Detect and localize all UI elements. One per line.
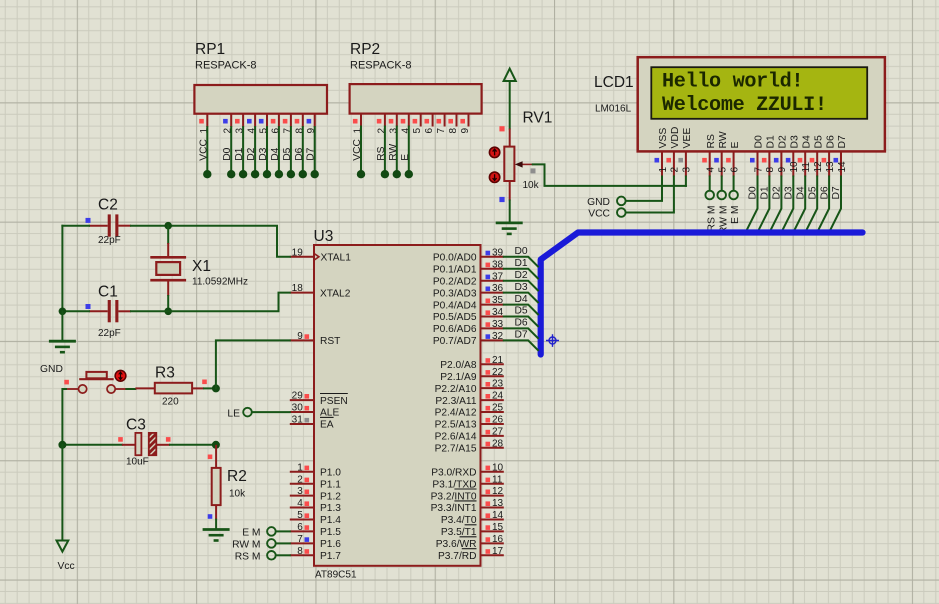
svg-text:D0: D0 bbox=[515, 246, 528, 257]
junction R3/RST bbox=[212, 384, 220, 392]
svg-text:P1.4: P1.4 bbox=[320, 515, 341, 526]
wire E M to U3 bbox=[276, 530, 290, 532]
svg-text:D6: D6 bbox=[819, 186, 830, 199]
wire R2 to ground bbox=[215, 520, 217, 529]
svg-text:R3: R3 bbox=[155, 365, 175, 382]
svg-text:RP2: RP2 bbox=[350, 41, 380, 58]
svg-text:28: 28 bbox=[492, 438, 504, 449]
svg-text:C2: C2 bbox=[98, 197, 118, 214]
svg-text:C3: C3 bbox=[126, 417, 146, 434]
svg-text:8: 8 bbox=[297, 546, 303, 557]
Vcc label bbox=[58, 561, 75, 572]
U3 pin 35 (P0.4/AD4) bbox=[433, 295, 504, 311]
R3 value label 220 bbox=[162, 397, 179, 408]
wire R3 to RST rail bbox=[204, 387, 216, 389]
X1 value label 11.0592MHz bbox=[192, 277, 248, 288]
power terminal Vcc (down arrow) bbox=[57, 541, 69, 552]
svg-text:D1: D1 bbox=[234, 147, 245, 160]
svg-text:10k: 10k bbox=[523, 180, 540, 191]
svg-text:31: 31 bbox=[292, 415, 304, 426]
LCD1 pin 5 (RW) bbox=[714, 131, 729, 176]
svg-text:6: 6 bbox=[729, 167, 740, 173]
U3 pin 14 (P3.4/T0) bbox=[441, 510, 504, 526]
capacitor C2 label bbox=[98, 197, 118, 214]
svg-text:11: 11 bbox=[801, 162, 812, 173]
svg-text:P2.1/A9: P2.1/A9 bbox=[440, 372, 477, 383]
potentiometer RV1 body bbox=[504, 147, 514, 181]
wire LCD D1 to bus bbox=[758, 177, 770, 232]
capacitor C1 bbox=[89, 300, 131, 322]
svg-text:7: 7 bbox=[436, 128, 447, 134]
svg-text:VCC: VCC bbox=[588, 209, 610, 220]
wire LCD VSS to GND terminal bbox=[626, 177, 662, 201]
U3 pin 16 (P3.6/WR) bbox=[436, 534, 504, 550]
wire LCD D7 to bus bbox=[830, 177, 842, 232]
svg-text:D3: D3 bbox=[258, 147, 269, 160]
svg-text:E M: E M bbox=[242, 527, 260, 538]
U3 pin 26 (P2.5/A13) bbox=[435, 415, 504, 431]
svg-text:19: 19 bbox=[292, 247, 304, 258]
svg-text:22pF: 22pF bbox=[98, 328, 121, 339]
LCD1 pin 10 (D3) bbox=[786, 135, 801, 177]
net label D4 (U3 side) bbox=[515, 294, 528, 305]
wire button right to R3 bbox=[115, 388, 135, 390]
U3 pin 38 (P0.1/AD1) bbox=[433, 259, 504, 275]
LCD1 pin 9 (D2) bbox=[774, 135, 789, 177]
wire Vcc rail to C3 bbox=[62, 444, 122, 446]
svg-text:27: 27 bbox=[492, 427, 504, 438]
svg-text:13: 13 bbox=[825, 161, 836, 173]
U3 pin 22 (P2.1/A9) bbox=[440, 367, 504, 383]
svg-text:P0.2/AD2: P0.2/AD2 bbox=[433, 276, 477, 287]
svg-text:5: 5 bbox=[297, 510, 303, 521]
wire LCD D3 to bus bbox=[782, 177, 794, 232]
junction C1/X1 node bbox=[164, 308, 172, 316]
wire Vcc rail down bbox=[61, 445, 63, 541]
wire C2 left to left rail bbox=[62, 225, 89, 227]
resistor pack RP1 body bbox=[194, 85, 327, 114]
microcontroller U3 AT89C51 body bbox=[314, 245, 481, 566]
LCD text line 2 bbox=[662, 94, 827, 117]
X1 reference label bbox=[192, 258, 211, 275]
LCD1 pin 1 (VSS) bbox=[655, 128, 670, 177]
terminal RS M bbox=[235, 551, 276, 562]
LCD1 pin 12 (D5) bbox=[810, 135, 825, 177]
R2 bottom pin square bbox=[208, 514, 213, 519]
U3 pin 9 (RST) bbox=[290, 331, 341, 347]
svg-text:LCD1: LCD1 bbox=[594, 74, 634, 91]
svg-text:RST: RST bbox=[320, 336, 340, 347]
RP2 pin 8 bbox=[448, 114, 459, 134]
U3 pin 1 (P1.0) bbox=[290, 462, 341, 478]
svg-text:P2.5/A13: P2.5/A13 bbox=[435, 420, 477, 431]
svg-text:25: 25 bbox=[492, 403, 504, 414]
svg-text:P2.7/A15: P2.7/A15 bbox=[435, 444, 477, 455]
svg-text:RS: RS bbox=[376, 146, 387, 160]
push button actuator circle bbox=[115, 370, 126, 381]
push button SW bbox=[79, 372, 116, 393]
terminal RW M bbox=[232, 539, 276, 550]
svg-text:10: 10 bbox=[789, 161, 800, 173]
svg-text:9: 9 bbox=[460, 128, 471, 134]
net label D6 (U3 side) bbox=[515, 318, 528, 329]
RV1 decrement button bbox=[489, 172, 499, 182]
terminal RS M bbox=[705, 191, 717, 232]
R2 top pin square bbox=[208, 455, 213, 460]
terminal GND bbox=[587, 197, 625, 208]
svg-text:D4: D4 bbox=[270, 147, 281, 160]
svg-text:VSS: VSS bbox=[658, 128, 669, 149]
capacitor C1 label bbox=[98, 284, 118, 301]
svg-text:35: 35 bbox=[492, 295, 504, 306]
svg-text:21: 21 bbox=[492, 355, 504, 366]
U3 pin 21 (P2.0/A8) bbox=[440, 355, 504, 371]
svg-text:P1.5: P1.5 bbox=[320, 527, 341, 538]
net label D1 (U3 side) bbox=[515, 258, 528, 269]
svg-text:12: 12 bbox=[813, 161, 824, 173]
U3 pin 10 (P3.0/RXD) bbox=[431, 462, 504, 478]
U3 pin 11 (P3.1/TXD) bbox=[432, 474, 503, 490]
wire LCD D0 to bus bbox=[746, 177, 758, 232]
wire LCD VDD to VCC terminal bbox=[626, 177, 674, 213]
svg-text:RS M: RS M bbox=[706, 206, 717, 232]
U3 pin 37 (P0.2/AD2) bbox=[433, 271, 504, 287]
terminal E M bbox=[729, 191, 741, 224]
svg-text:RESPACK-8: RESPACK-8 bbox=[350, 60, 412, 72]
RP2 value label RESPACK-8 bbox=[350, 60, 412, 72]
svg-text:4: 4 bbox=[706, 167, 717, 173]
U3 pin 3 (P1.2) bbox=[290, 486, 341, 502]
wire LCD VEE down bbox=[685, 177, 687, 186]
svg-text:D6: D6 bbox=[294, 147, 305, 160]
svg-text:LM016L: LM016L bbox=[595, 104, 632, 115]
wire RW M to U3 bbox=[276, 542, 290, 544]
wire C1 left junction bbox=[62, 310, 89, 312]
svg-text:D6: D6 bbox=[515, 318, 528, 329]
svg-text:34: 34 bbox=[492, 307, 504, 318]
RV1 top pin stub bbox=[509, 129, 511, 147]
C3 value label 10uF bbox=[126, 457, 149, 468]
terminal LE bbox=[227, 408, 251, 420]
ground below RV1 bbox=[496, 223, 523, 234]
terminal VCC bbox=[588, 208, 625, 219]
svg-text:C1: C1 bbox=[98, 284, 118, 301]
svg-text:22pF: 22pF bbox=[98, 235, 121, 246]
svg-text:24: 24 bbox=[492, 391, 504, 402]
button pin square bbox=[64, 380, 69, 385]
svg-text:D3: D3 bbox=[784, 186, 795, 199]
U3 pin 28 (P2.7/A15) bbox=[435, 438, 504, 454]
net label D3 (U3 side) bbox=[515, 282, 528, 293]
svg-text:2: 2 bbox=[670, 167, 681, 173]
RP1 value label RESPACK-8 bbox=[195, 60, 257, 72]
U3 pin 31 (EA) bbox=[290, 415, 334, 431]
svg-text:23: 23 bbox=[492, 379, 504, 390]
RP2 pin 5 bbox=[412, 114, 423, 134]
terminal E M bbox=[242, 527, 276, 538]
svg-text:1: 1 bbox=[658, 167, 669, 173]
U3 pin 19 (XTAL1) bbox=[290, 247, 351, 263]
svg-text:XTAL2: XTAL2 bbox=[320, 288, 351, 299]
svg-text:U3: U3 bbox=[314, 228, 334, 245]
svg-text:D0: D0 bbox=[222, 147, 233, 160]
svg-text:R2: R2 bbox=[227, 468, 247, 485]
svg-text:RV1: RV1 bbox=[523, 110, 553, 127]
U3 pin 34 (P0.5/AD5) bbox=[433, 307, 504, 323]
wire LCD D4 to bus bbox=[794, 177, 806, 232]
junction left rail C1 bbox=[59, 308, 67, 316]
svg-text:Welcome ZZULI!: Welcome ZZULI! bbox=[662, 94, 827, 117]
svg-text:4: 4 bbox=[297, 498, 303, 509]
RP1 pin 4 (D2) bbox=[246, 114, 259, 179]
svg-text:D2: D2 bbox=[778, 135, 789, 149]
svg-text:D2: D2 bbox=[515, 270, 528, 281]
svg-text:P0.6/AD6: P0.6/AD6 bbox=[433, 324, 477, 335]
svg-text:D5: D5 bbox=[807, 186, 818, 199]
svg-text:D4: D4 bbox=[515, 294, 528, 305]
svg-text:33: 33 bbox=[492, 319, 504, 330]
svg-text:11.0592MHz: 11.0592MHz bbox=[192, 277, 248, 288]
svg-text:1: 1 bbox=[297, 462, 303, 473]
RV1 bottom pin stub bbox=[509, 181, 511, 201]
net label D4 (LCD side) bbox=[795, 186, 806, 199]
svg-text:D4: D4 bbox=[801, 135, 812, 149]
LCD1 pin 6 (E) bbox=[726, 142, 741, 177]
RP2 pin 2 bbox=[376, 114, 389, 179]
svg-text:32: 32 bbox=[492, 331, 504, 342]
U3 pin 7 (P1.6) bbox=[290, 534, 341, 550]
svg-text:P0.5/AD5: P0.5/AD5 bbox=[433, 312, 477, 323]
svg-text:12: 12 bbox=[492, 486, 504, 497]
RP1 pin 6 (D4) bbox=[270, 114, 283, 179]
wire U3 P0.2 to bus (net D2) bbox=[504, 281, 538, 291]
wire U3 P0.6 to bus (net D6) bbox=[504, 328, 538, 338]
RP1 pin 8 (D6) bbox=[294, 114, 307, 179]
svg-text:P0.0/AD0: P0.0/AD0 bbox=[433, 253, 477, 264]
svg-text:P3.7/RD: P3.7/RD bbox=[438, 551, 477, 562]
svg-text:D2: D2 bbox=[772, 186, 783, 199]
svg-text:D2: D2 bbox=[246, 147, 257, 160]
svg-text:10k: 10k bbox=[229, 489, 246, 500]
U3 pin 24 (P2.3/A11) bbox=[435, 391, 503, 407]
svg-text:P1.3: P1.3 bbox=[320, 503, 341, 514]
LCD1 pin 3 (VEE) bbox=[678, 128, 693, 177]
U3 pin 5 (P1.4) bbox=[290, 510, 341, 526]
U3 pin 4 (P1.3) bbox=[290, 498, 341, 514]
RV1 wiper square bbox=[531, 168, 536, 173]
net label D5 (U3 side) bbox=[515, 306, 528, 317]
LCD1 pin 8 (D1) bbox=[762, 135, 777, 177]
C2 pin square bbox=[86, 218, 91, 223]
svg-text:P2.3/A11: P2.3/A11 bbox=[435, 396, 476, 407]
svg-text:13: 13 bbox=[492, 498, 504, 509]
U3 pin 12 (P3.2/INT0) bbox=[431, 486, 504, 502]
wire U3 P0.1 to bus (net D1) bbox=[504, 269, 538, 279]
net label D6 (LCD side) bbox=[819, 186, 830, 199]
LCD1 pin 2 (VDD) bbox=[666, 127, 681, 177]
svg-text:17: 17 bbox=[492, 546, 504, 557]
svg-text:P0.1/AD1: P0.1/AD1 bbox=[433, 264, 477, 275]
svg-text:P0.4/AD4: P0.4/AD4 bbox=[433, 300, 477, 311]
svg-text:29: 29 bbox=[292, 391, 304, 402]
net label D1 (LCD side) bbox=[760, 186, 771, 199]
junction Vcc rail / C3 row bbox=[58, 441, 66, 449]
U3 pin 36 (P0.3/AD3) bbox=[433, 283, 504, 299]
svg-text:7: 7 bbox=[297, 534, 303, 545]
capacitor C2 bbox=[89, 214, 131, 236]
svg-text:9: 9 bbox=[297, 331, 303, 342]
RP1 pin 7 (D5) bbox=[282, 114, 295, 179]
RP1 pin 9 (D7) bbox=[306, 114, 319, 179]
RV1 reference label bbox=[523, 110, 553, 127]
svg-text:RESPACK-8: RESPACK-8 bbox=[195, 60, 257, 72]
wire LCD RW to terminal bbox=[721, 177, 723, 191]
wire RS M to U3 bbox=[276, 554, 290, 556]
svg-text:16: 16 bbox=[492, 534, 504, 545]
U3 pin 13 (P3.3/INT1) bbox=[431, 498, 504, 514]
net label D0 (U3 side) bbox=[515, 246, 528, 257]
terminal RW M bbox=[717, 191, 729, 234]
ground below R2 bbox=[203, 530, 230, 541]
R2 value label 10k bbox=[229, 489, 246, 500]
U3 pin 2 (P1.1) bbox=[290, 474, 341, 490]
net label D0 (LCD side) bbox=[748, 186, 759, 199]
svg-text:VCC: VCC bbox=[198, 138, 209, 160]
svg-text:RS: RS bbox=[706, 134, 717, 149]
C1 value label 22pF bbox=[98, 328, 121, 339]
svg-text:39: 39 bbox=[492, 247, 504, 258]
wire left rail C2 to C1 bbox=[61, 226, 63, 312]
LCD1 pin 4 (RS) bbox=[702, 134, 717, 177]
RV1 top pin square bbox=[499, 126, 504, 131]
RV1 bottom pin square bbox=[499, 197, 504, 202]
power terminal above RV1 bbox=[504, 69, 516, 129]
GND label top-left bbox=[40, 364, 63, 375]
svg-text:D3: D3 bbox=[515, 282, 528, 293]
svg-text:XTAL1: XTAL1 bbox=[321, 253, 352, 264]
svg-text:15: 15 bbox=[492, 522, 504, 533]
wire LCD D6 to bus bbox=[818, 177, 830, 232]
wire U3 P0.5 to bus (net D5) bbox=[504, 317, 538, 327]
LCD1 pin 13 (D6) bbox=[822, 135, 837, 177]
svg-text:E M: E M bbox=[730, 206, 741, 224]
resistor R2 bbox=[212, 445, 221, 520]
svg-text:GND: GND bbox=[40, 364, 63, 375]
U3 type label AT89C51 bbox=[315, 570, 357, 581]
svg-text:VCC: VCC bbox=[352, 138, 363, 160]
wire U3 P0.7 to bus (net D7) bbox=[504, 340, 538, 350]
C3 right pin square bbox=[166, 437, 171, 442]
svg-text:14: 14 bbox=[837, 161, 848, 173]
svg-text:30: 30 bbox=[292, 403, 304, 414]
svg-text:220: 220 bbox=[162, 397, 179, 408]
svg-text:D7: D7 bbox=[306, 147, 317, 160]
C2 value label 22pF bbox=[98, 235, 121, 246]
crystal X1 bbox=[150, 257, 186, 280]
U3 pin 30 (ALE) bbox=[290, 403, 340, 419]
wire C2 right to XTAL1 bbox=[131, 226, 290, 257]
LCD1 pin 7 (D0) bbox=[750, 135, 765, 177]
RV1 increment button bbox=[489, 147, 499, 157]
svg-text:P1.2: P1.2 bbox=[320, 491, 341, 502]
RP2 pin 9 bbox=[460, 114, 471, 134]
svg-text:P2.6/A14: P2.6/A14 bbox=[435, 432, 477, 443]
svg-text:36: 36 bbox=[492, 283, 504, 294]
svg-text:10uF: 10uF bbox=[126, 457, 149, 468]
svg-text:P3.0/RXD: P3.0/RXD bbox=[431, 467, 476, 478]
svg-text:P1.6: P1.6 bbox=[320, 539, 341, 550]
RV1 value label 10k bbox=[523, 180, 540, 191]
U3 pin 18 (XTAL2) bbox=[290, 283, 351, 299]
svg-text:RS M: RS M bbox=[235, 551, 261, 562]
R3 reference label bbox=[155, 365, 175, 382]
svg-text:P1.0: P1.0 bbox=[320, 467, 341, 478]
svg-text:10: 10 bbox=[492, 462, 504, 473]
svg-text:D1: D1 bbox=[766, 135, 777, 149]
svg-text:3: 3 bbox=[682, 167, 693, 173]
wire U3 P0.3 to bus (net D3) bbox=[504, 293, 538, 303]
RP2 pin 1 bbox=[352, 114, 365, 179]
wire RV1 wiper to LCD VEE bbox=[533, 164, 686, 186]
svg-text:P2.2/A10: P2.2/A10 bbox=[435, 384, 477, 395]
RP1 pin 5 (D3) bbox=[258, 114, 271, 179]
svg-text:P2.0/A8: P2.0/A8 bbox=[440, 360, 477, 371]
RP1 pin 3 (D1) bbox=[234, 114, 247, 179]
net label D2 (LCD side) bbox=[772, 186, 783, 199]
svg-text:P2.4/A12: P2.4/A12 bbox=[435, 408, 477, 419]
svg-text:E: E bbox=[400, 154, 411, 161]
RP2 reference label bbox=[350, 41, 380, 58]
junction C3/R2/RST rail bbox=[212, 441, 220, 449]
wire left rail to ground bbox=[61, 311, 63, 341]
svg-text:D6: D6 bbox=[825, 135, 836, 149]
svg-text:LE: LE bbox=[227, 409, 240, 420]
RV1 wiper arrow bbox=[515, 161, 533, 167]
svg-text:18: 18 bbox=[292, 283, 304, 294]
U3 pin 8 (P1.7) bbox=[290, 546, 341, 562]
LCD text line 1 bbox=[662, 71, 803, 94]
wire X1 top bbox=[167, 226, 169, 256]
svg-text:X1: X1 bbox=[192, 258, 211, 275]
svg-text:P0.7/AD7: P0.7/AD7 bbox=[433, 336, 477, 347]
wire C1 right to XTAL2 bbox=[131, 293, 290, 312]
svg-text:AT89C51: AT89C51 bbox=[315, 570, 357, 581]
svg-text:VDD: VDD bbox=[670, 127, 681, 149]
LCD LM016L U-LCD1 body bbox=[638, 57, 885, 151]
wire to U3 RST bbox=[216, 340, 290, 388]
wire LCD D2 to bus bbox=[770, 177, 782, 232]
RP2 pin 7 bbox=[436, 114, 447, 134]
U3 pin 32 (P0.7/AD7) bbox=[433, 331, 504, 347]
resistor pack RP2 body bbox=[350, 84, 482, 114]
net label D7 (LCD side) bbox=[831, 186, 842, 199]
U3 pin 25 (P2.4/A12) bbox=[435, 403, 504, 419]
svg-text:E: E bbox=[730, 142, 741, 149]
wire button left to Vcc rail bbox=[62, 389, 78, 445]
U3 pin 27 (P2.6/A14) bbox=[435, 427, 504, 443]
svg-text:D7: D7 bbox=[831, 186, 842, 199]
svg-text:D0: D0 bbox=[748, 186, 759, 199]
LCD1 pin 14 (D7) bbox=[834, 135, 849, 177]
svg-text:D4: D4 bbox=[795, 186, 806, 199]
capacitor C3 label bbox=[126, 417, 146, 434]
svg-text:RW: RW bbox=[718, 131, 729, 148]
data bus D0-D7 bbox=[541, 233, 863, 355]
svg-text:RP1: RP1 bbox=[195, 41, 225, 58]
svg-text:D7: D7 bbox=[837, 135, 848, 149]
U3 reference label bbox=[314, 228, 334, 245]
svg-text:22: 22 bbox=[492, 367, 504, 378]
